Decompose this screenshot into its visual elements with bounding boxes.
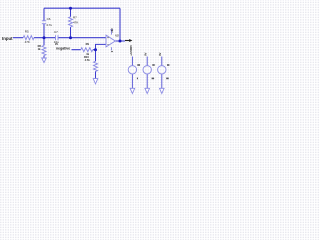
svg-text:9V: 9V [55, 43, 58, 46]
svg-text:9V: 9V [143, 52, 147, 55]
svg-text:C6: C6 [47, 17, 51, 21]
svg-text:+4.500V: +4.500V [129, 45, 133, 56]
svg-text:47K: 47K [25, 40, 30, 44]
svg-text:+9V: +9V [110, 28, 114, 33]
svg-text:47K: 47K [73, 20, 78, 24]
svg-text:R7: R7 [73, 16, 77, 20]
svg-text:4.7u: 4.7u [46, 23, 52, 27]
svg-text:9V: 9V [158, 52, 162, 55]
svg-text:0: 0 [110, 50, 114, 52]
svg-text:4.7k: 4.7k [85, 58, 91, 62]
svg-text:Input: Input [2, 36, 13, 41]
svg-text:U2: U2 [115, 33, 119, 37]
svg-text:R9: R9 [86, 42, 90, 46]
svg-text:C7: C7 [54, 30, 58, 34]
svg-text:R5: R5 [25, 29, 29, 33]
svg-text:negative: negative [56, 46, 70, 50]
